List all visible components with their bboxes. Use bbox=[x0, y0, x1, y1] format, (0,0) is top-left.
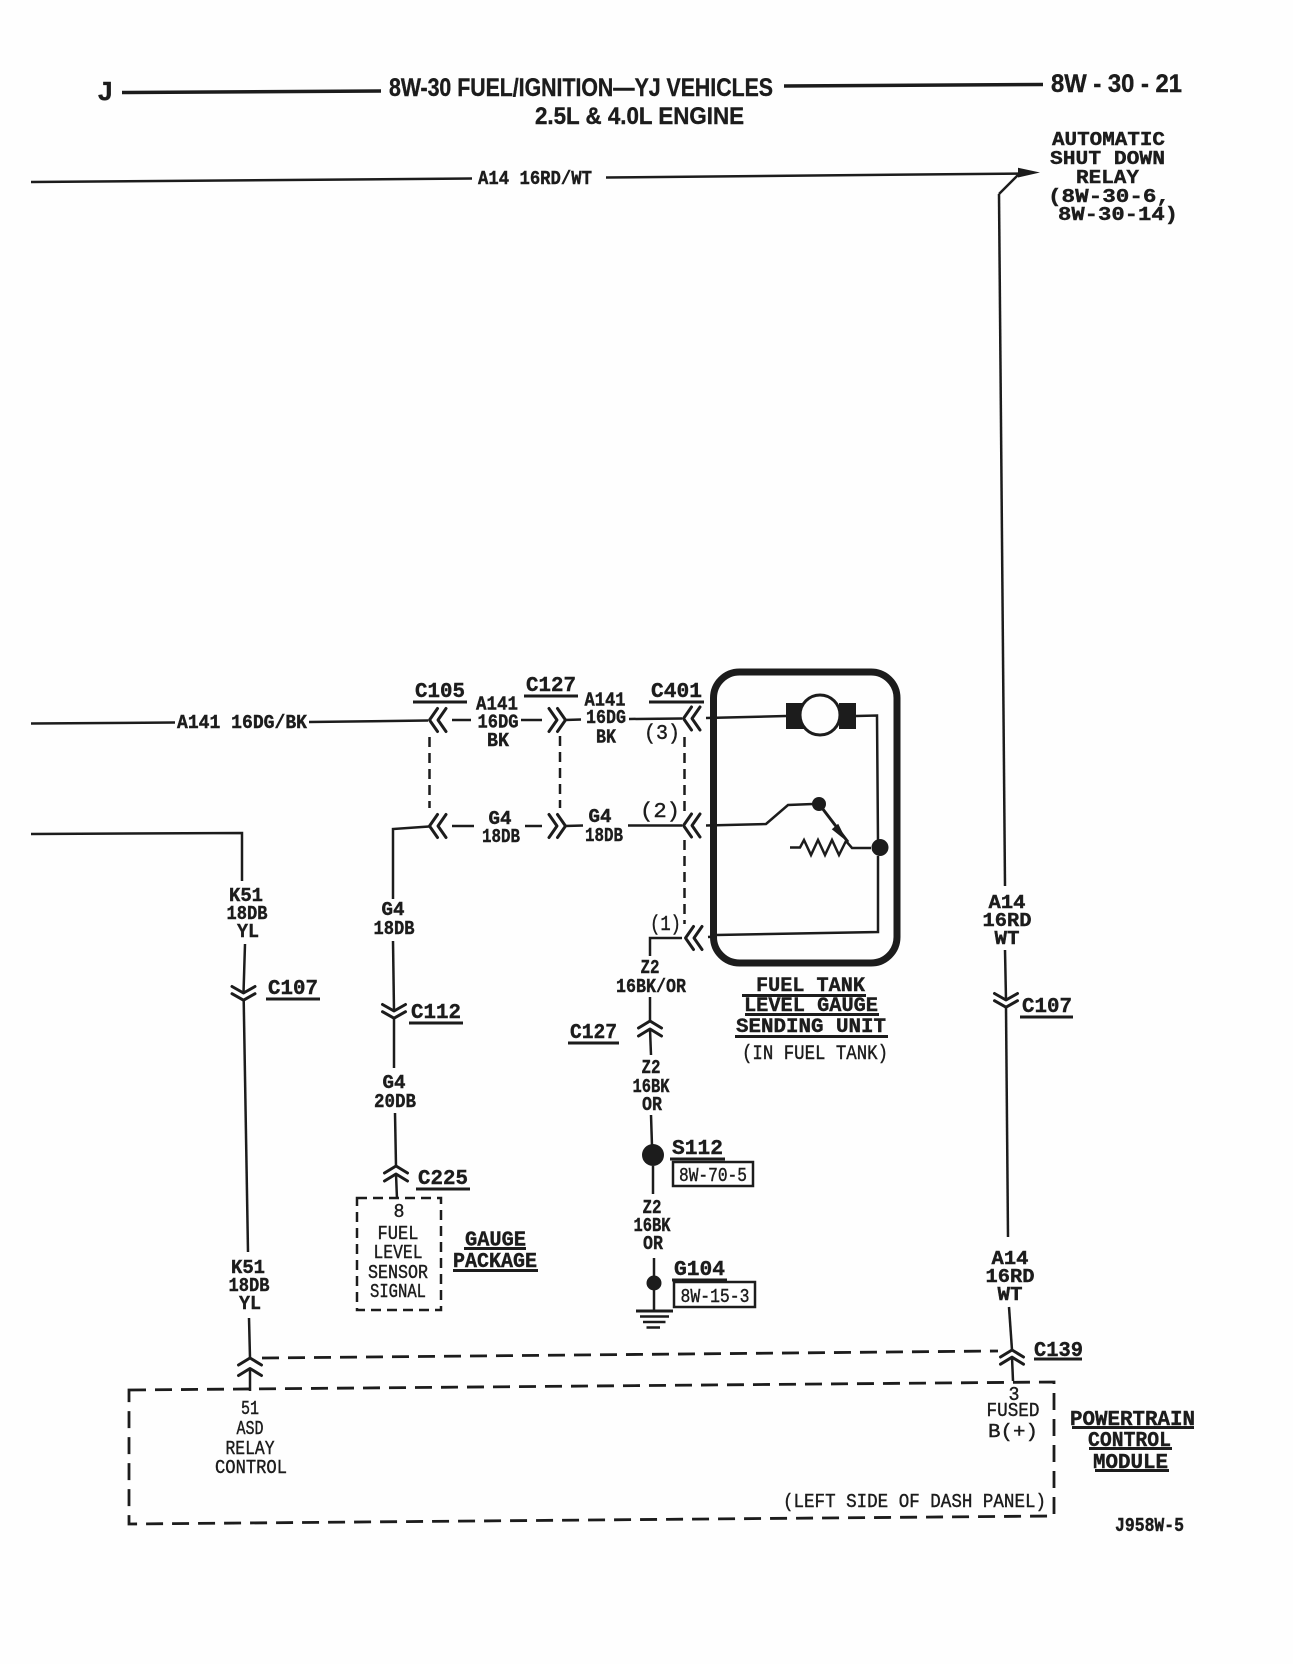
svg-text:CONTROL: CONTROL bbox=[215, 1457, 287, 1479]
wiper arrowhead bbox=[832, 824, 847, 842]
arrowhead to relay bbox=[1018, 168, 1040, 178]
label 8 FUEL LEVEL SENSOR SIGNAL bbox=[368, 1201, 428, 1303]
svg-text:A14 16RD/WT: A14 16RD/WT bbox=[478, 168, 592, 190]
wire into fuel tank to motor bbox=[706, 716, 786, 718]
wire A14 to C107 bbox=[1005, 950, 1006, 1000]
sender wiper arm bbox=[819, 804, 848, 842]
fuel pump motor brushes bbox=[786, 703, 804, 729]
wire Z2 bbox=[650, 1029, 651, 1055]
reference box 8W-70-5 bbox=[673, 1162, 753, 1186]
header rule left bbox=[122, 91, 381, 93]
connector C105 row1 (chevrons left) bbox=[430, 709, 447, 732]
svg-text:(LEFT SIDE OF DASH PANEL): (LEFT SIDE OF DASH PANEL) bbox=[783, 1491, 1046, 1513]
wire A141 row1 left bbox=[31, 723, 175, 724]
dashed connector line C127 bbox=[559, 736, 562, 808]
wire Z2 to ground bbox=[653, 1258, 656, 1276]
svg-text:WT: WT bbox=[998, 1284, 1023, 1306]
svg-text:BK: BK bbox=[596, 727, 617, 749]
label A141 16DG BK stack1 bbox=[476, 694, 519, 753]
header rule right bbox=[784, 85, 1043, 87]
reference box 8W-15-3 bbox=[674, 1282, 755, 1307]
label A14 16RD WT (upper right) bbox=[983, 892, 1032, 950]
connector C401 pin1 (chevrons left) bbox=[686, 927, 703, 950]
connector C139 (chevrons up) bbox=[1001, 1350, 1024, 1364]
wire A141 row1 to C105 bbox=[309, 721, 428, 723]
svg-text:18DB: 18DB bbox=[585, 825, 623, 847]
gauge package dashed box bbox=[357, 1198, 441, 1310]
label A14 16RD WT (lower right) bbox=[986, 1248, 1035, 1306]
svg-text:B(+): B(+) bbox=[988, 1421, 1038, 1443]
label FUEL TANK LEVEL GAUGE SENDING UNIT bbox=[736, 975, 886, 1039]
svg-text:SIGNAL: SIGNAL bbox=[370, 1281, 426, 1303]
svg-text:8: 8 bbox=[394, 1201, 405, 1223]
label A141 16DG BK stack2 bbox=[585, 690, 627, 749]
label 3 FUSED B(+) bbox=[987, 1384, 1040, 1443]
label K51 18DB YL upper bbox=[227, 885, 268, 943]
label Z2 16BK OR lower bbox=[634, 1197, 671, 1255]
PCM dashed wire row bbox=[262, 1351, 998, 1358]
dashed connector line C401 upper bbox=[683, 737, 686, 812]
label AUTOMATIC SHUT DOWN RELAY destination bbox=[1048, 129, 1178, 226]
wire K51 long vertical bbox=[244, 1000, 248, 1252]
svg-text:8W - 30 - 21: 8W - 30 - 21 bbox=[1051, 70, 1182, 98]
wire Z2 to splice bbox=[651, 1115, 652, 1146]
connector C401 pin3 (chevrons left) bbox=[684, 707, 701, 730]
dashed connector line C105 bbox=[428, 737, 431, 808]
wire G4 to C225 bbox=[395, 1113, 396, 1166]
wire A14 to C139 bbox=[1009, 1307, 1012, 1350]
svg-text:16BK/OR: 16BK/OR bbox=[616, 976, 687, 998]
wire to ground symbol bbox=[653, 1290, 656, 1310]
sender wiper pivot dot bbox=[812, 797, 826, 811]
wire K51 horizontal bbox=[31, 833, 242, 881]
svg-text:ASD: ASD bbox=[237, 1418, 264, 1440]
svg-text:OR: OR bbox=[643, 1233, 664, 1255]
svg-text:(2): (2) bbox=[640, 801, 680, 824]
splice S112 dot bbox=[642, 1144, 664, 1166]
svg-text:18DB: 18DB bbox=[374, 918, 415, 940]
svg-text:(1): (1) bbox=[650, 914, 681, 937]
wire G4 to label bbox=[393, 1018, 396, 1068]
svg-text:FUSED: FUSED bbox=[987, 1400, 1040, 1422]
connector pin 51 (chevrons up) bbox=[239, 1358, 262, 1376]
svg-text:OR: OR bbox=[642, 1094, 663, 1116]
fuel tank sending unit box bbox=[714, 672, 898, 963]
label G4 20DB bbox=[374, 1072, 416, 1113]
label G4 18DB middle column bbox=[374, 899, 415, 940]
svg-text:2.5L & 4.0L ENGINE: 2.5L & 4.0L ENGINE bbox=[535, 103, 744, 130]
svg-text:J958W-5: J958W-5 bbox=[1115, 1515, 1184, 1537]
connector C401 pin2 (chevrons left) bbox=[684, 814, 701, 837]
wire into fuel tank to sender arm bbox=[706, 804, 813, 826]
wire stub bbox=[452, 825, 474, 828]
svg-text:20DB: 20DB bbox=[374, 1091, 416, 1113]
svg-text:(3): (3) bbox=[644, 723, 680, 746]
label G4 18DB stack2 bbox=[585, 806, 623, 847]
label G4 18DB stack1 bbox=[482, 808, 520, 848]
powertrain control module dashed box bbox=[129, 1382, 1054, 1524]
svg-text:YL: YL bbox=[239, 1293, 261, 1315]
svg-text:J: J bbox=[98, 76, 112, 106]
wire stub bbox=[565, 824, 583, 827]
svg-text:8W-70-5: 8W-70-5 bbox=[679, 1165, 747, 1187]
connector C127 row2 (chevrons right) bbox=[549, 815, 566, 838]
wire to C401 row2 bbox=[628, 824, 682, 827]
svg-text:WT: WT bbox=[995, 928, 1020, 950]
wire A14 vertical upper bbox=[999, 194, 1005, 886]
ground symbol bbox=[636, 1311, 673, 1328]
connector C112 (chevrons down) bbox=[383, 1005, 406, 1019]
wire into PCM pin 51 bbox=[249, 1369, 252, 1392]
label Z2 16BK OR upper bbox=[633, 1057, 670, 1116]
connector C127 row1 (chevrons right) bbox=[549, 709, 566, 732]
label 51 ASD RELAY CONTROL bbox=[215, 1398, 287, 1479]
wire K51 to PCM connector bbox=[249, 1318, 250, 1358]
svg-text:51: 51 bbox=[241, 1398, 259, 1420]
svg-text:BK: BK bbox=[487, 730, 510, 752]
wire stub bbox=[525, 825, 542, 828]
svg-text:8W-15-3: 8W-15-3 bbox=[681, 1286, 750, 1308]
wire K51 to C107 bbox=[244, 944, 246, 993]
svg-text:A141 16DG/BK: A141 16DG/BK bbox=[177, 712, 308, 734]
wire A14 vertical lower bbox=[1006, 1007, 1008, 1237]
wire Z2 below splice bbox=[652, 1166, 655, 1194]
connector C225 (chevrons up) bbox=[385, 1166, 408, 1181]
wire into PCM pin 3 bbox=[1012, 1357, 1013, 1381]
connector C127 lower (chevrons up) bbox=[639, 1021, 662, 1036]
connector C107 right (chevrons down) bbox=[995, 994, 1018, 1008]
svg-text:YL: YL bbox=[237, 921, 259, 943]
wire into fuel tank from pin1 bbox=[708, 935, 717, 938]
label Z2 16BK/OR bbox=[616, 957, 687, 998]
wire right bus lower bbox=[716, 856, 878, 935]
dashed connector line C401 lower bbox=[683, 840, 686, 924]
wire G4 row2 corner bbox=[393, 827, 429, 900]
fuel pump motor bbox=[800, 695, 840, 735]
ground junction G104 dot bbox=[647, 1276, 662, 1291]
wire G4 to C112 bbox=[393, 941, 394, 1011]
wire Z2 to C127 bbox=[649, 997, 652, 1021]
svg-text:LEVEL: LEVEL bbox=[374, 1242, 423, 1264]
connector C107 left (chevrons down) bbox=[232, 987, 255, 1001]
label K51 18DB YL lower bbox=[229, 1257, 270, 1315]
wire A14 top right segment bbox=[606, 174, 1024, 178]
rheostat resistor zigzag bbox=[790, 840, 871, 855]
connector C105 row2 (chevrons left) bbox=[430, 815, 447, 838]
rheostat right junction dot bbox=[872, 839, 889, 856]
wire bend to vertical bbox=[999, 175, 1018, 194]
wire stub bbox=[521, 719, 542, 722]
wire stub bbox=[452, 719, 471, 722]
svg-text:(IN FUEL TANK): (IN FUEL TANK) bbox=[742, 1043, 888, 1066]
svg-text:8W-30-14): 8W-30-14) bbox=[1058, 204, 1178, 226]
wire into gauge package bbox=[396, 1174, 397, 1199]
svg-text:8W-30 FUEL/IGNITION—YJ VEHICLE: 8W-30 FUEL/IGNITION—YJ VEHICLES bbox=[389, 74, 773, 102]
wire motor to right bus bbox=[856, 716, 878, 843]
wire to C401 row1 bbox=[629, 717, 682, 720]
wire Z2 row3 corner bbox=[650, 938, 682, 956]
wire stub bbox=[565, 718, 581, 721]
svg-text:18DB: 18DB bbox=[482, 826, 520, 848]
wire A14 16RD/WT top horizontal bbox=[31, 179, 472, 183]
